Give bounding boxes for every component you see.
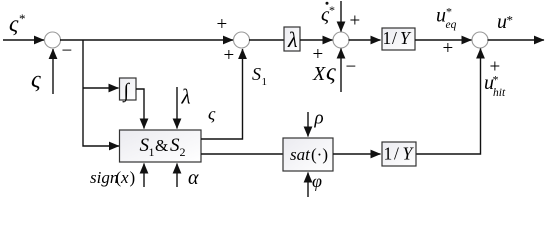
wire: branch to integrator [83, 87, 119, 89]
svg-text:1: 1 [262, 76, 268, 88]
integrator box [120, 78, 137, 100]
block λ [284, 27, 300, 51]
wire: output arrow u* [488, 39, 545, 41]
block sat(·) [283, 138, 333, 171]
svg-text:*: * [507, 13, 514, 28]
svg-text:+: + [443, 38, 454, 59]
svg-text:φ: φ [312, 171, 322, 191]
svg-text:+: + [313, 44, 324, 65]
svg-text:1: 1 [149, 145, 155, 159]
wire: λ box to junction 3 [300, 39, 333, 41]
wire: branch down from main line [83, 40, 119, 146]
svg-text:/: / [394, 144, 399, 164]
wire: ς feedback arrow into junction 1 [52, 49, 54, 94]
block 1/Y bottom [382, 142, 416, 166]
svg-text:−: − [346, 57, 357, 78]
svg-text:ς: ς [208, 104, 216, 124]
svg-text:ς: ς [31, 67, 41, 93]
wire: Xς arrow from bottom into junction 3 [340, 49, 342, 93]
summing junction 2 [234, 32, 250, 48]
svg-text:S: S [252, 64, 261, 84]
svg-text:−: − [62, 41, 73, 62]
svg-text:*: * [493, 73, 499, 87]
svg-text:λ: λ [287, 27, 298, 52]
wire: λ arrow into S1&S2 box [176, 87, 178, 129]
svg-text:*: * [329, 3, 335, 17]
wire: φ arrow into sat box bottom [307, 173, 309, 198]
wire: u*hit arrow from bottom into junction 4 [416, 49, 481, 155]
wire: junction 1 to junction 2 [60, 39, 233, 41]
svg-text:x: x [120, 168, 129, 187]
wire: α arrow into box bottom [176, 164, 178, 188]
svg-text:u: u [436, 5, 446, 27]
svg-text:sign: sign [90, 168, 118, 187]
svg-text:S: S [170, 135, 180, 156]
block 1/Y top [382, 28, 415, 50]
svg-text:*: * [446, 5, 452, 19]
block S1 & S2 [120, 130, 202, 162]
svg-text:ρ: ρ [314, 108, 324, 129]
svg-text:&: & [155, 136, 168, 155]
wire: junction 2 to λ box [249, 39, 284, 41]
svg-text:(·): (·) [311, 145, 328, 164]
svg-text:/: / [392, 28, 397, 48]
wire: ρ arrow into sat box [307, 112, 309, 137]
wire: sat box to 1/Y bottom [333, 153, 381, 155]
wire: integrator output down into S1&S2 box [136, 89, 144, 129]
wire: junction 3 to 1/Y box [349, 39, 381, 41]
svg-text:u: u [497, 11, 507, 33]
wire: input line into summing junction 1 [3, 39, 44, 41]
svg-text:+: + [350, 11, 361, 32]
svg-text:eq: eq [446, 19, 457, 31]
svg-text:hit: hit [493, 87, 506, 99]
wire: S1 output up into junction 2 [201, 49, 243, 139]
wire: 1/Y to junction 4 [415, 39, 472, 41]
svg-text:1: 1 [383, 28, 392, 48]
svg-text:): ) [130, 168, 136, 187]
svg-text:ς: ς [326, 60, 336, 86]
svg-text:2: 2 [180, 145, 186, 159]
svg-text:+: + [224, 45, 235, 66]
svg-text:sat: sat [290, 145, 311, 164]
svg-text:+: + [217, 14, 228, 35]
svg-text:λ: λ [181, 85, 191, 109]
svg-text:1: 1 [384, 144, 393, 164]
summing junction 4 [472, 32, 488, 48]
wire: sign(x) arrow into box bottom [143, 164, 145, 188]
svg-text:X: X [312, 63, 326, 85]
svg-text:α: α [188, 167, 199, 189]
svg-text:*: * [19, 11, 26, 26]
wire: ς̇* arrow from top into junction 3 [340, 1, 342, 32]
summing junction 3 [333, 32, 349, 48]
summing junction 1 [45, 32, 61, 48]
wire: S box lower output to sat box [201, 153, 283, 155]
svg-text:ς: ς [9, 11, 19, 36]
